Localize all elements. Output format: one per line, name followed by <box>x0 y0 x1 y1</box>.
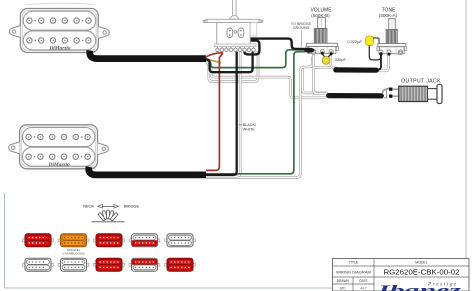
svg-text:MODEL: MODEL <box>415 261 428 265</box>
capacitor 330pF <box>321 52 347 64</box>
cable from bridge pickup <box>89 167 206 175</box>
black wire bridge to switch lug (B2) <box>206 52 237 175</box>
white wire volume lug3 to tone cable bar1 <box>314 54 337 69</box>
faint scan arc top left <box>25 3 95 5</box>
legend mini pickup position 3 neck <box>94 234 125 247</box>
black wire switch terminal to volume casing (loop A) <box>247 39 306 49</box>
title block <box>333 259 470 291</box>
black wire neck to switch lug (B1) <box>206 52 253 73</box>
svg-text:330pF: 330pF <box>335 57 347 62</box>
legend mini pickup position 1 neck <box>23 234 54 247</box>
white wire branch to output cable <box>302 68 326 93</box>
white wire bar1 to tone lug2 <box>378 55 389 71</box>
svg-text:WHITE: WHITE <box>243 127 256 131</box>
legend mini pickup position 5 neck <box>165 234 196 247</box>
svg-text:DiMarzio: DiMarzio <box>48 46 71 52</box>
red wire bridge to switch lug <box>206 51 222 171</box>
page border bottom <box>4 287 466 289</box>
volume pot VR1 <box>306 8 339 55</box>
hand / 5 positions icon <box>98 210 118 221</box>
pickup bridge (humbucker) <box>9 125 109 169</box>
legend label PARALLEL <box>62 248 85 255</box>
svg-text:NECK: NECK <box>83 203 94 208</box>
white wire volume lug1 to output cable <box>314 54 328 94</box>
bare wire neck cable <box>206 60 221 63</box>
page border right <box>465 0 467 291</box>
svg-text:DATE: DATE <box>359 279 367 283</box>
legend mini pickup position 4 neck <box>129 234 160 247</box>
svg-text:(500K-B): (500K-B) <box>311 13 330 18</box>
svg-text:0.022µF: 0.022µF <box>347 39 362 44</box>
solder blob volume lug1 <box>304 48 314 53</box>
svg-text:44.7: 44.7 <box>360 286 366 290</box>
legend switch positions <box>83 203 140 221</box>
svg-text:DRAWN: DRAWN <box>337 279 350 283</box>
white wire of black/white pair from bridge cable to switch <box>206 52 240 176</box>
legend mini pickup position 5 bridge <box>165 258 196 271</box>
svg-text:OUTPUT JACK: OUTPUT JACK <box>401 78 441 84</box>
cable bar2 to output jack <box>329 93 382 99</box>
green wire bridge to volume lug (G2) <box>206 52 306 174</box>
svg-text:BRIDGE: BRIDGE <box>124 203 140 208</box>
label TO BRIDGE GROUND with pointer <box>291 22 312 47</box>
svg-text:(2 HUMBUCKING): (2 HUMBUCKING) <box>62 251 85 255</box>
tone pot VR2 <box>377 8 407 55</box>
red wire neck to switch lug <box>206 53 223 57</box>
black wire switch loop B <box>244 41 259 55</box>
white wire neck to output cable (W5) <box>206 62 326 98</box>
cable from neck pickup <box>90 51 206 59</box>
pickup neck (humbucker) <box>10 9 110 53</box>
svg-text:RG2620E-CBK-00-02: RG2620E-CBK-00-02 <box>384 268 460 277</box>
legend mini pickup position 2 bridge <box>58 258 89 271</box>
legend mini pickup position 3 bridge <box>94 258 125 271</box>
legend mini pickup position 4 bridge <box>129 258 160 271</box>
svg-text:GROUND: GROUND <box>293 26 310 30</box>
legend mini pickup position 1 bridge <box>23 258 54 271</box>
svg-text:8/01: 8/01 <box>340 286 346 290</box>
svg-text:(500K-A): (500K-A) <box>379 13 398 18</box>
white wire W1 neck to switch lug <box>206 52 258 82</box>
green wire neck to volume lug (G1) <box>206 50 306 68</box>
svg-text:WIRING DIAGRAM: WIRING DIAGRAM <box>336 269 371 274</box>
black wire bar1 to tone lug1 <box>378 55 382 70</box>
capacitor 0.022uF <box>347 36 390 60</box>
output jack J1 <box>383 78 443 103</box>
page border left <box>4 193 6 288</box>
selector switch SW1 <box>203 0 263 52</box>
legend mini pickup position 2 neck <box>58 234 89 247</box>
svg-text:TITLE: TITLE <box>349 261 359 265</box>
svg-text:Ibanez: Ibanez <box>376 284 462 291</box>
label BLACK/WHITE <box>239 123 257 131</box>
cable bar1 volume to tone <box>336 67 377 72</box>
white wire from bridge cable to volume (W2) <box>206 57 313 178</box>
